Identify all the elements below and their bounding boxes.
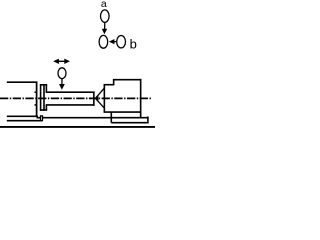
ellipse node center [99,35,108,48]
ground line [0,126,155,128]
left lower line [7,120,42,122]
flange right vertical upper [45,85,47,92]
bed line [37,117,149,119]
arrow b left [109,39,116,44]
shaft bottom edge [46,104,95,106]
shaft right edge [93,92,95,106]
tailstock left edge [103,84,105,112]
double headed arrow [53,59,70,64]
base plate left edge [110,112,112,123]
left bed line [7,115,38,117]
ellipse node b [117,36,126,48]
center cone upper edge [95,89,104,99]
load ellipse [58,68,66,79]
flange top cap [40,84,47,86]
ellipse node a [101,10,110,22]
tailstock top edge [113,79,141,81]
shaft top edge [46,91,95,93]
flange plate 2 [43,84,45,111]
flange right vertical lower [45,105,47,110]
flange plate 1 [40,84,42,111]
tailstock bottom edge [104,111,142,113]
centerline [0,97,152,99]
svg-text:a: a [101,0,107,10]
shaft top nub left of wall [35,91,37,93]
center cone tip [95,95,99,101]
base plate bottom edge [111,122,148,124]
base plate right edge [147,117,149,124]
tailstock shelf top [104,84,114,86]
flange foot block [41,116,43,121]
center cone lower edge [95,98,104,107]
load arrow down [59,79,65,90]
svg-text:b: b [130,37,137,52]
shaft bottom nub left of wall [35,104,37,106]
arrow a down [102,23,107,34]
wall vertical [36,81,38,116]
tailstock right edge [140,79,142,118]
tailstock step vertical [113,80,115,86]
wall top line [7,81,38,83]
flange bottom cap [40,109,47,111]
